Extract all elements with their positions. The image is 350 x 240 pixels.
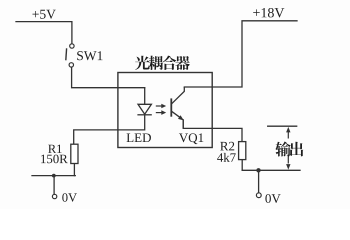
label LED — [127, 133, 151, 142]
resistor R2 — [239, 142, 246, 160]
label +5V — [32, 10, 55, 19]
terminal circle right 0V — [256, 193, 261, 198]
wire R1 bottom — [73, 164, 75, 176]
wire switch to LED anode — [72, 67, 145, 88]
resistor R1 — [71, 144, 78, 163]
output down arrow — [287, 155, 289, 164]
label 输出 — [275, 142, 303, 157]
wire left 0V terminal lead — [53, 176, 55, 195]
label SW1 — [77, 51, 102, 60]
wire left 0V rail — [32, 175, 75, 177]
wire right 0V terminal lead — [258, 170, 260, 193]
label 4k7 — [217, 153, 236, 162]
label VQ1 — [179, 133, 203, 144]
wire +5V rail — [16, 22, 72, 44]
label 150R — [41, 155, 68, 164]
node junction left 0V — [52, 174, 56, 178]
LED (optocoupler emitter diode) — [137, 104, 151, 115]
phototransistor VQ1 — [171, 87, 184, 128]
wire +18V rail down to collector — [212, 21, 297, 87]
label R1 — [48, 145, 61, 153]
terminal circle left 0V — [52, 194, 56, 198]
label 0V right — [265, 194, 280, 203]
switch SW1 — [66, 44, 74, 67]
light arrows — [156, 104, 166, 115]
wire R2 bottom — [241, 160, 243, 171]
wire LED anode — [144, 88, 146, 105]
wire right 0V rail — [242, 169, 300, 171]
wire emitter to R2 — [183, 120, 242, 142]
node junction right 0V — [256, 168, 260, 172]
output up arrow — [286, 127, 290, 170]
optocoupler box — [118, 73, 212, 148]
output indicator top bar — [268, 125, 297, 127]
label 光耦合器 — [135, 56, 190, 70]
label 0V left — [62, 193, 77, 202]
label +18V — [253, 8, 284, 18]
label R2 — [220, 142, 234, 151]
wire LED cathode to R1 — [74, 115, 145, 144]
wire collector inside box — [184, 86, 212, 88]
